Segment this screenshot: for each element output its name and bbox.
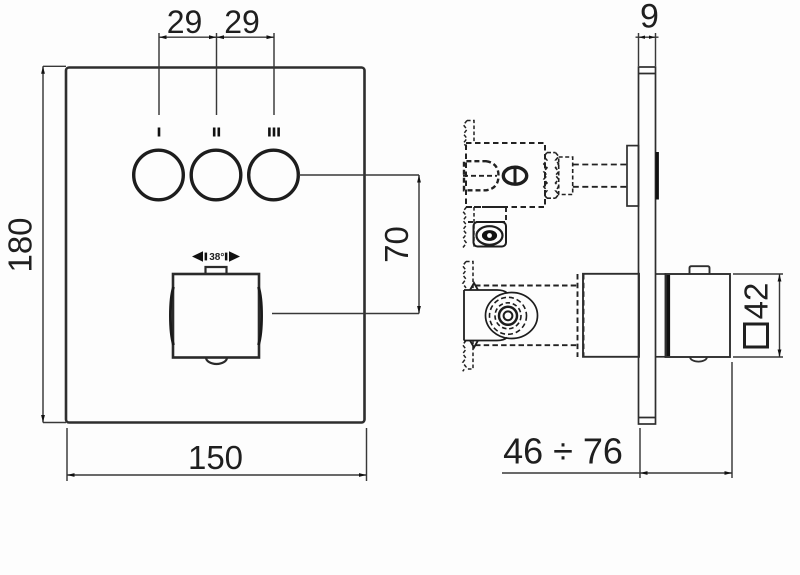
svg-text:70: 70 xyxy=(378,226,415,263)
svg-text:29: 29 xyxy=(224,4,260,40)
dimension 180 left xyxy=(43,66,66,422)
dimension 46-76 bottom xyxy=(502,362,732,478)
temperature knob square xyxy=(170,274,261,358)
label II xyxy=(213,128,220,137)
svg-text:46 ÷ 76: 46 ÷ 76 xyxy=(503,431,623,472)
button circle II xyxy=(191,150,241,200)
label I xyxy=(158,128,161,137)
dimension square-42 right xyxy=(733,274,783,357)
upper bottom bracket with screw xyxy=(474,222,507,247)
knob top tab xyxy=(206,267,227,274)
dimension 9 top xyxy=(636,33,659,66)
label III xyxy=(268,128,280,137)
front plate xyxy=(66,68,365,423)
lower wall bracket strip xyxy=(463,262,473,372)
handle neck xyxy=(656,274,667,357)
svg-text:42: 42 xyxy=(738,283,775,320)
upper valve body (hidden) xyxy=(466,143,545,207)
cartridge sleeve to wall xyxy=(583,274,639,357)
button circle III xyxy=(249,150,299,200)
svg-text:9: 9 xyxy=(640,0,659,36)
cartridge dome ellipse xyxy=(486,293,538,339)
handle body xyxy=(666,274,731,357)
spindle shaft xyxy=(573,165,627,187)
spindle step xyxy=(559,157,573,195)
buttons profile black bar xyxy=(656,152,659,200)
cartridge concentric circles xyxy=(490,297,527,334)
dimension 70 right xyxy=(272,175,419,314)
upper wall bracket tab xyxy=(464,121,475,148)
svg-text:29: 29 xyxy=(167,4,203,40)
handle top tab xyxy=(690,266,710,274)
handle bottom bump xyxy=(690,357,707,362)
threaded spindle section xyxy=(544,153,559,199)
dimension 150 bottom xyxy=(67,428,367,481)
cartridge bracket xyxy=(464,283,507,348)
svg-text:180: 180 xyxy=(2,217,39,272)
knob bottom bump xyxy=(206,358,227,365)
upper oval with slot xyxy=(503,167,526,184)
button pod behind plate xyxy=(627,146,639,206)
svg-text:38°: 38° xyxy=(209,252,224,263)
wall plate side profile xyxy=(639,67,656,424)
38 degree marking xyxy=(192,251,240,263)
upper wall strip lower xyxy=(463,207,474,248)
dimension text 42 with square symbol xyxy=(738,283,775,347)
thermostatic cartridge body (hidden) xyxy=(475,274,584,357)
upper lower step of body xyxy=(466,207,506,222)
dimension 29-29 top xyxy=(159,33,274,115)
upper inner capsule xyxy=(463,161,499,190)
button circle I xyxy=(134,150,184,200)
svg-text:150: 150 xyxy=(188,439,243,476)
